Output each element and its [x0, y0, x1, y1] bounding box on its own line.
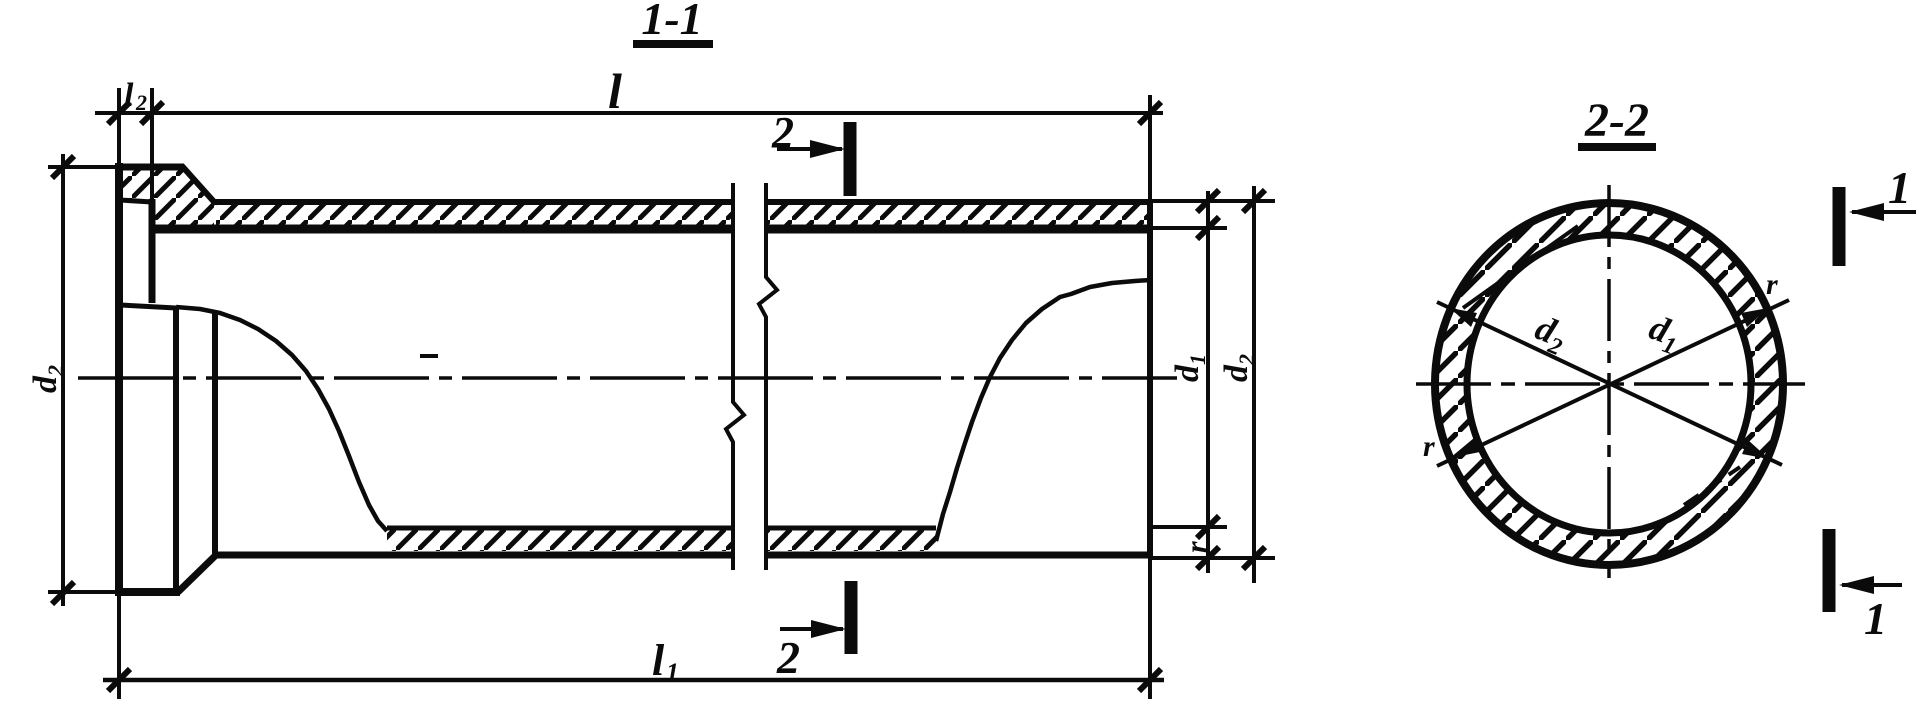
- extension line x=1150 above pipe: [1148, 95, 1152, 202]
- tick at (119,680): [108, 669, 130, 691]
- svg-text:l: l: [608, 63, 622, 119]
- tick (1208,228): [1197, 217, 1219, 239]
- section 1 mark top-right: arrow: [1852, 210, 1916, 214]
- tick (1254,201): [1243, 190, 1265, 212]
- centerline main view: [78, 376, 1177, 380]
- bell face (left end): [115, 163, 123, 596]
- svg-text:2-2: 2-2: [1584, 94, 1649, 147]
- bottom wall hatch right of break: [766, 530, 936, 551]
- tick at (63,593): [52, 582, 74, 604]
- bell top chamfer: [182, 166, 216, 204]
- svg-text:2: 2: [771, 108, 794, 157]
- socket mouth top edge: [120, 200, 152, 202]
- pipe inner top line: [152, 225, 733, 234]
- socket inner vertical B: [212, 312, 218, 556]
- right extension top inner y=228: [1150, 226, 1227, 230]
- svg-text:1: 1: [1864, 593, 1887, 644]
- d2 arrow top-left: [1450, 308, 1477, 327]
- svg-text:1: 1: [1888, 162, 1911, 213]
- pipe end face: [1147, 202, 1153, 557]
- extension x=119 below bell: [117, 596, 121, 699]
- tick (1208,558): [1197, 547, 1219, 569]
- dimension line d1 (x=1208): [1206, 191, 1210, 573]
- chord dash bottom-right: [1684, 467, 1740, 505]
- d1 arrow bottom-left: [1450, 438, 1480, 458]
- break line right: [759, 183, 777, 570]
- svg-text:2: 2: [776, 632, 800, 683]
- section 1 mark top-right: bar: [1833, 187, 1846, 266]
- d1 arrow top-right: [1741, 308, 1768, 327]
- top wall hatch left of break: [216, 205, 733, 225]
- dimension line l1 (y=680): [103, 678, 1164, 683]
- tick at (1150,680): [1139, 669, 1161, 691]
- right extension top outer y=201: [1150, 199, 1275, 203]
- svg-text:1: 1: [666, 658, 679, 687]
- pipe outer top line: [214, 199, 733, 205]
- socket mouth inner vertical: [149, 199, 156, 303]
- circle vertical centerline: [1607, 185, 1611, 578]
- tick at (1150,113): [1139, 102, 1161, 124]
- d2 arrow bottom-right: [1742, 440, 1769, 459]
- socket inner vertical A: [173, 308, 179, 590]
- bell bottom edge: [116, 588, 180, 596]
- speck dash: [420, 354, 438, 358]
- bell bottom chamfer: [178, 555, 216, 592]
- tick at (63,167): [52, 156, 74, 178]
- svg-text:r: r: [1766, 268, 1778, 301]
- ring hatch: [1435, 203, 1783, 565]
- tick (1208,527): [1197, 516, 1219, 538]
- svg-text:2: 2: [135, 90, 147, 115]
- outer circle: [1435, 203, 1783, 565]
- section 2 mark top: bar: [844, 122, 857, 196]
- dimension line d3 left (x=63): [61, 154, 65, 606]
- socket shoulder line: [120, 305, 176, 308]
- section 2 mark bottom: arrow: [780, 627, 843, 631]
- left transition curve: [176, 307, 387, 531]
- tick at (119,113): [108, 102, 130, 124]
- tick (1254,558): [1243, 547, 1265, 569]
- pipe outer bottom line: [214, 552, 733, 559]
- tick (1208,201): [1197, 190, 1219, 212]
- inner circle: [1467, 235, 1751, 533]
- dimension line d2 (x=1254): [1252, 186, 1256, 583]
- right transition curve: [936, 280, 1150, 541]
- bottom wall hatch left of break: [387, 530, 733, 551]
- right extension bottom inner y=527: [1150, 525, 1227, 529]
- section 1 mark bottom-right: arrow: [1842, 583, 1902, 587]
- svg-text:r: r: [1180, 541, 1213, 553]
- pipe inner bottom line: [387, 526, 733, 531]
- extension top y=167: [48, 165, 119, 169]
- section 2 mark bottom: bar: [845, 581, 858, 654]
- extension line x=119 above bell: [117, 88, 121, 163]
- svg-text:1-1: 1-1: [641, 0, 702, 44]
- section 2 mark top: arrow: [777, 147, 842, 151]
- extension line x=152 above bell: [150, 88, 154, 199]
- svg-text:r: r: [1423, 430, 1435, 463]
- section 1 mark bottom-right: bar: [1823, 529, 1836, 612]
- right extension bottom outer y=558: [1150, 556, 1275, 560]
- bell top edge: [116, 164, 184, 171]
- svg-text:l: l: [652, 636, 665, 685]
- break line left: [726, 183, 744, 570]
- extension bottom y=592: [48, 590, 119, 594]
- title 1-1 underline: [633, 40, 713, 48]
- d1 diameter line: [1437, 300, 1789, 466]
- title 2-2 underline: [1578, 143, 1656, 151]
- top wall hatch right of break: [766, 205, 1150, 225]
- circle horizontal centerline: [1416, 382, 1805, 386]
- extension x=1150 below pipe: [1148, 557, 1152, 699]
- d2 diameter line: [1437, 302, 1782, 465]
- chord line top-left: [1463, 226, 1578, 308]
- bell hatch: [122, 170, 214, 226]
- dimension line L (y=113): [95, 111, 1163, 115]
- tick at (152,113): [141, 102, 163, 124]
